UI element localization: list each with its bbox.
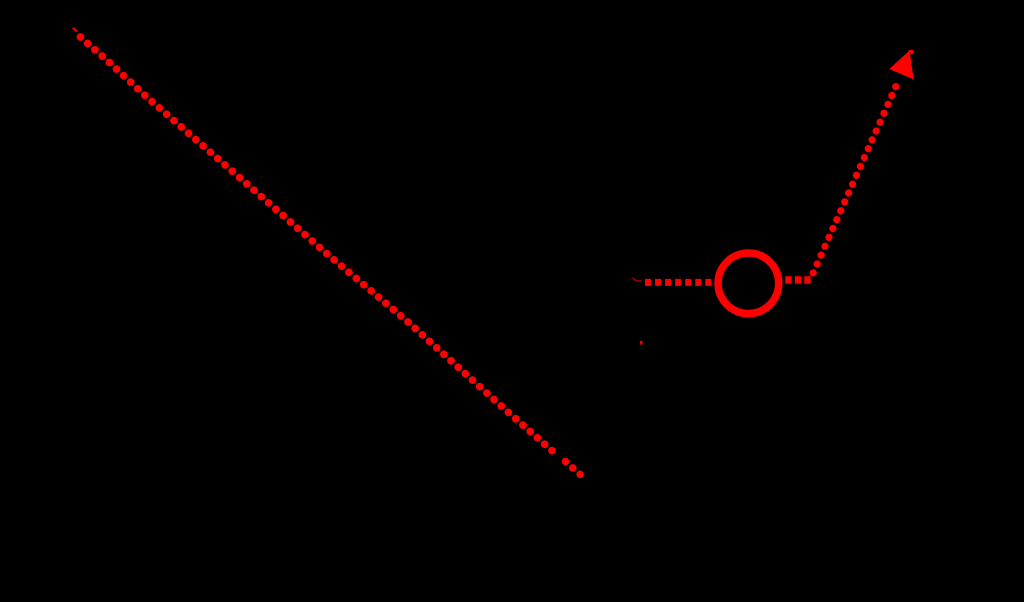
tiny stray dot	[640, 341, 643, 345]
pen-start tick of descending line	[74, 29, 77, 32]
horizontal dotted line left of circle	[645, 279, 712, 286]
descending dotted line (main segment)	[80, 37, 553, 452]
circle (red ring)	[718, 253, 779, 314]
faint pen-start tick of horizontal line	[633, 278, 642, 281]
rising dotted line toward arrow	[813, 81, 898, 273]
descending dotted line (final three dots after gap)	[566, 462, 581, 475]
horizontal dotted squares right of circle	[785, 276, 811, 283]
arrowhead tip nub	[909, 50, 914, 54]
arrowhead	[889, 51, 913, 80]
